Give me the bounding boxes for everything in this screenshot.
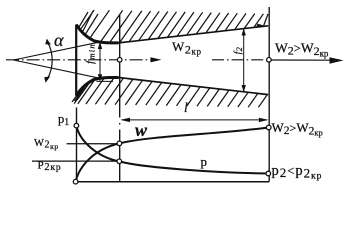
arrowhead on top wall at exit bbox=[257, 24, 266, 27]
cone tangent line lower bbox=[14, 60, 101, 78]
svg-text:p: p bbox=[201, 154, 208, 169]
exit flow arrow bbox=[272, 59, 334, 61]
svg-text:f2: f2 bbox=[233, 46, 245, 54]
nozzle top wall (converging + throat) bbox=[76, 25, 118, 43]
node W at throat bbox=[117, 141, 122, 146]
node p at exit bbox=[266, 171, 271, 176]
svg-text:fmin: fmin bbox=[84, 43, 96, 64]
P2kr level line bbox=[32, 160, 119, 162]
W2kr level line bbox=[67, 143, 120, 145]
cone tangent line upper bbox=[14, 43, 98, 60]
nozzle inlet face bbox=[75, 25, 77, 96]
fmin top arrowhead bbox=[98, 42, 102, 49]
f2 top arrowhead bbox=[242, 28, 246, 35]
f2 bottom arrowhead bbox=[242, 85, 246, 92]
l dimension line bbox=[122, 119, 267, 121]
p curve (pressure) bbox=[76, 126, 268, 174]
graph left axis bbox=[76, 108, 78, 182]
nozzle bottom wall (diverging) bbox=[119, 78, 269, 95]
fmin extension tick bottom bbox=[97, 80, 114, 82]
svg-text:l: l bbox=[184, 100, 188, 115]
fmin bottom arrowhead bbox=[98, 74, 102, 81]
fmin dimension line bbox=[99, 43, 101, 81]
angle alpha arc bbox=[47, 42, 52, 80]
alpha arc top arrowhead bbox=[45, 39, 51, 45]
throat section vertical line bbox=[119, 15, 121, 182]
node p at throat bbox=[117, 159, 122, 164]
bottom wall hatching bbox=[72, 78, 267, 107]
l right arrowhead bbox=[259, 118, 269, 122]
top wall hatching bbox=[79, 10, 268, 43]
centerline dash-dot (apex to arrow) bbox=[6, 59, 158, 61]
fmin extension tick top bbox=[97, 41, 114, 43]
exit section vertical line bbox=[268, 7, 270, 182]
centerline arrowhead bbox=[151, 57, 162, 62]
W curve (velocity) bbox=[76, 128, 269, 182]
nozzle top wall (diverging) bbox=[119, 26, 269, 43]
graph bottom axis bbox=[75, 181, 269, 183]
nozzle bottom wall (converging + throat) bbox=[76, 77, 118, 95]
exit centre node bbox=[267, 58, 272, 63]
centerline dash-dot (after label) bbox=[212, 59, 267, 61]
f2 dimension line bbox=[243, 30, 245, 92]
node origin bbox=[73, 179, 78, 184]
node p1 bbox=[74, 123, 79, 128]
throat centre node bbox=[117, 58, 122, 63]
svg-text:α: α bbox=[54, 30, 64, 50]
l left arrowhead bbox=[120, 118, 130, 122]
node W at exit bbox=[266, 125, 271, 130]
svg-text:w: w bbox=[135, 120, 148, 140]
alpha arc bottom arrowhead bbox=[44, 76, 50, 82]
